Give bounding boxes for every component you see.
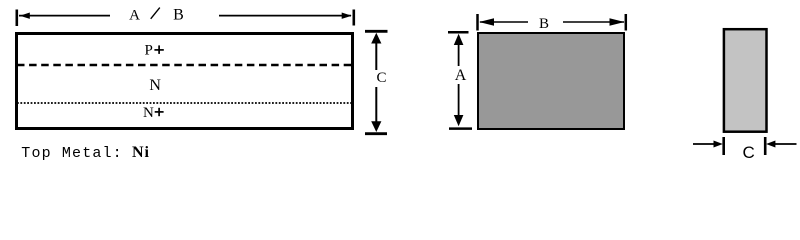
left figure: die cross-section dimension A/B left tick — [15, 10, 18, 27]
svg-text:B: B — [173, 7, 184, 24]
N+ region label letter N — [143, 105, 154, 121]
dimension A/B label letter B — [173, 7, 184, 24]
middle figure: die top view dimension B left tick — [476, 14, 479, 31]
svg-text:A: A — [129, 8, 140, 24]
right figure: die side view body rectangle — [724, 29, 767, 132]
dimension C label — [376, 70, 386, 86]
svg-text:A: A — [455, 67, 467, 84]
die top view body rectangle — [478, 33, 624, 129]
dimension B label — [539, 16, 549, 32]
svg-text:C: C — [376, 70, 386, 86]
die body outline rectangle — [17, 34, 353, 129]
P+/N junction dashed line — [17, 64, 352, 67]
dimension C upper line — [375, 42, 377, 70]
P+ region label letter P — [145, 43, 153, 59]
dimension A/B label letter A — [129, 8, 140, 24]
svg-text:N: N — [143, 105, 154, 121]
dimension C (thickness) label — [742, 143, 754, 162]
dimension B right line — [563, 21, 624, 23]
dimension B left arrowhead — [479, 18, 494, 26]
svg-text:C: C — [742, 143, 754, 160]
dimension A label — [455, 67, 467, 84]
dimension A/B left arrow line — [19, 15, 110, 17]
N region label — [149, 77, 161, 94]
dimension C (thickness) right arrowhead — [766, 141, 775, 148]
dimension C top bar — [365, 30, 388, 33]
N+ region label plus sign — [155, 108, 164, 116]
svg-text:N: N — [149, 77, 161, 94]
dimension C (thickness) right line — [775, 143, 797, 145]
dimension A bottom arrowhead — [454, 115, 464, 126]
dimension A top bar — [448, 31, 469, 34]
dimension A upper line — [458, 44, 460, 66]
dimension A/B right arrow line — [219, 15, 351, 17]
dimension C (thickness) left arrowhead — [714, 141, 723, 148]
dimension B right arrowhead — [610, 18, 625, 26]
svg-text:P: P — [145, 43, 153, 59]
dimension C (thickness) left tick — [722, 137, 725, 155]
dimension A/B label slash — [151, 8, 160, 19]
dimension C (thickness) right tick — [764, 137, 767, 155]
dimension C lower line — [375, 87, 377, 122]
dimension A/B right arrowhead — [342, 13, 352, 19]
dimension B right tick — [625, 14, 628, 31]
P+ region label plus sign — [154, 45, 163, 54]
dimension C bottom bar — [365, 132, 387, 135]
dimension B left line — [480, 21, 528, 23]
dimension C top arrowhead — [371, 33, 381, 44]
svg-text:Top Metal:: Top Metal: — [21, 145, 123, 160]
dimension C bottom arrowhead — [371, 121, 381, 132]
N/N+ junction dotted line — [17, 102, 352, 104]
dimension A top arrowhead — [454, 34, 464, 45]
top metal annotation text — [21, 144, 150, 162]
svg-text:Ni: Ni — [132, 144, 150, 160]
dimension A lower line — [458, 84, 460, 116]
dimension A/B right tick — [352, 10, 355, 26]
svg-text:B: B — [539, 16, 549, 32]
dimension A/B left arrowhead — [20, 13, 30, 19]
dimension A bottom bar — [449, 127, 472, 130]
dimension C (thickness) left line — [693, 143, 715, 145]
